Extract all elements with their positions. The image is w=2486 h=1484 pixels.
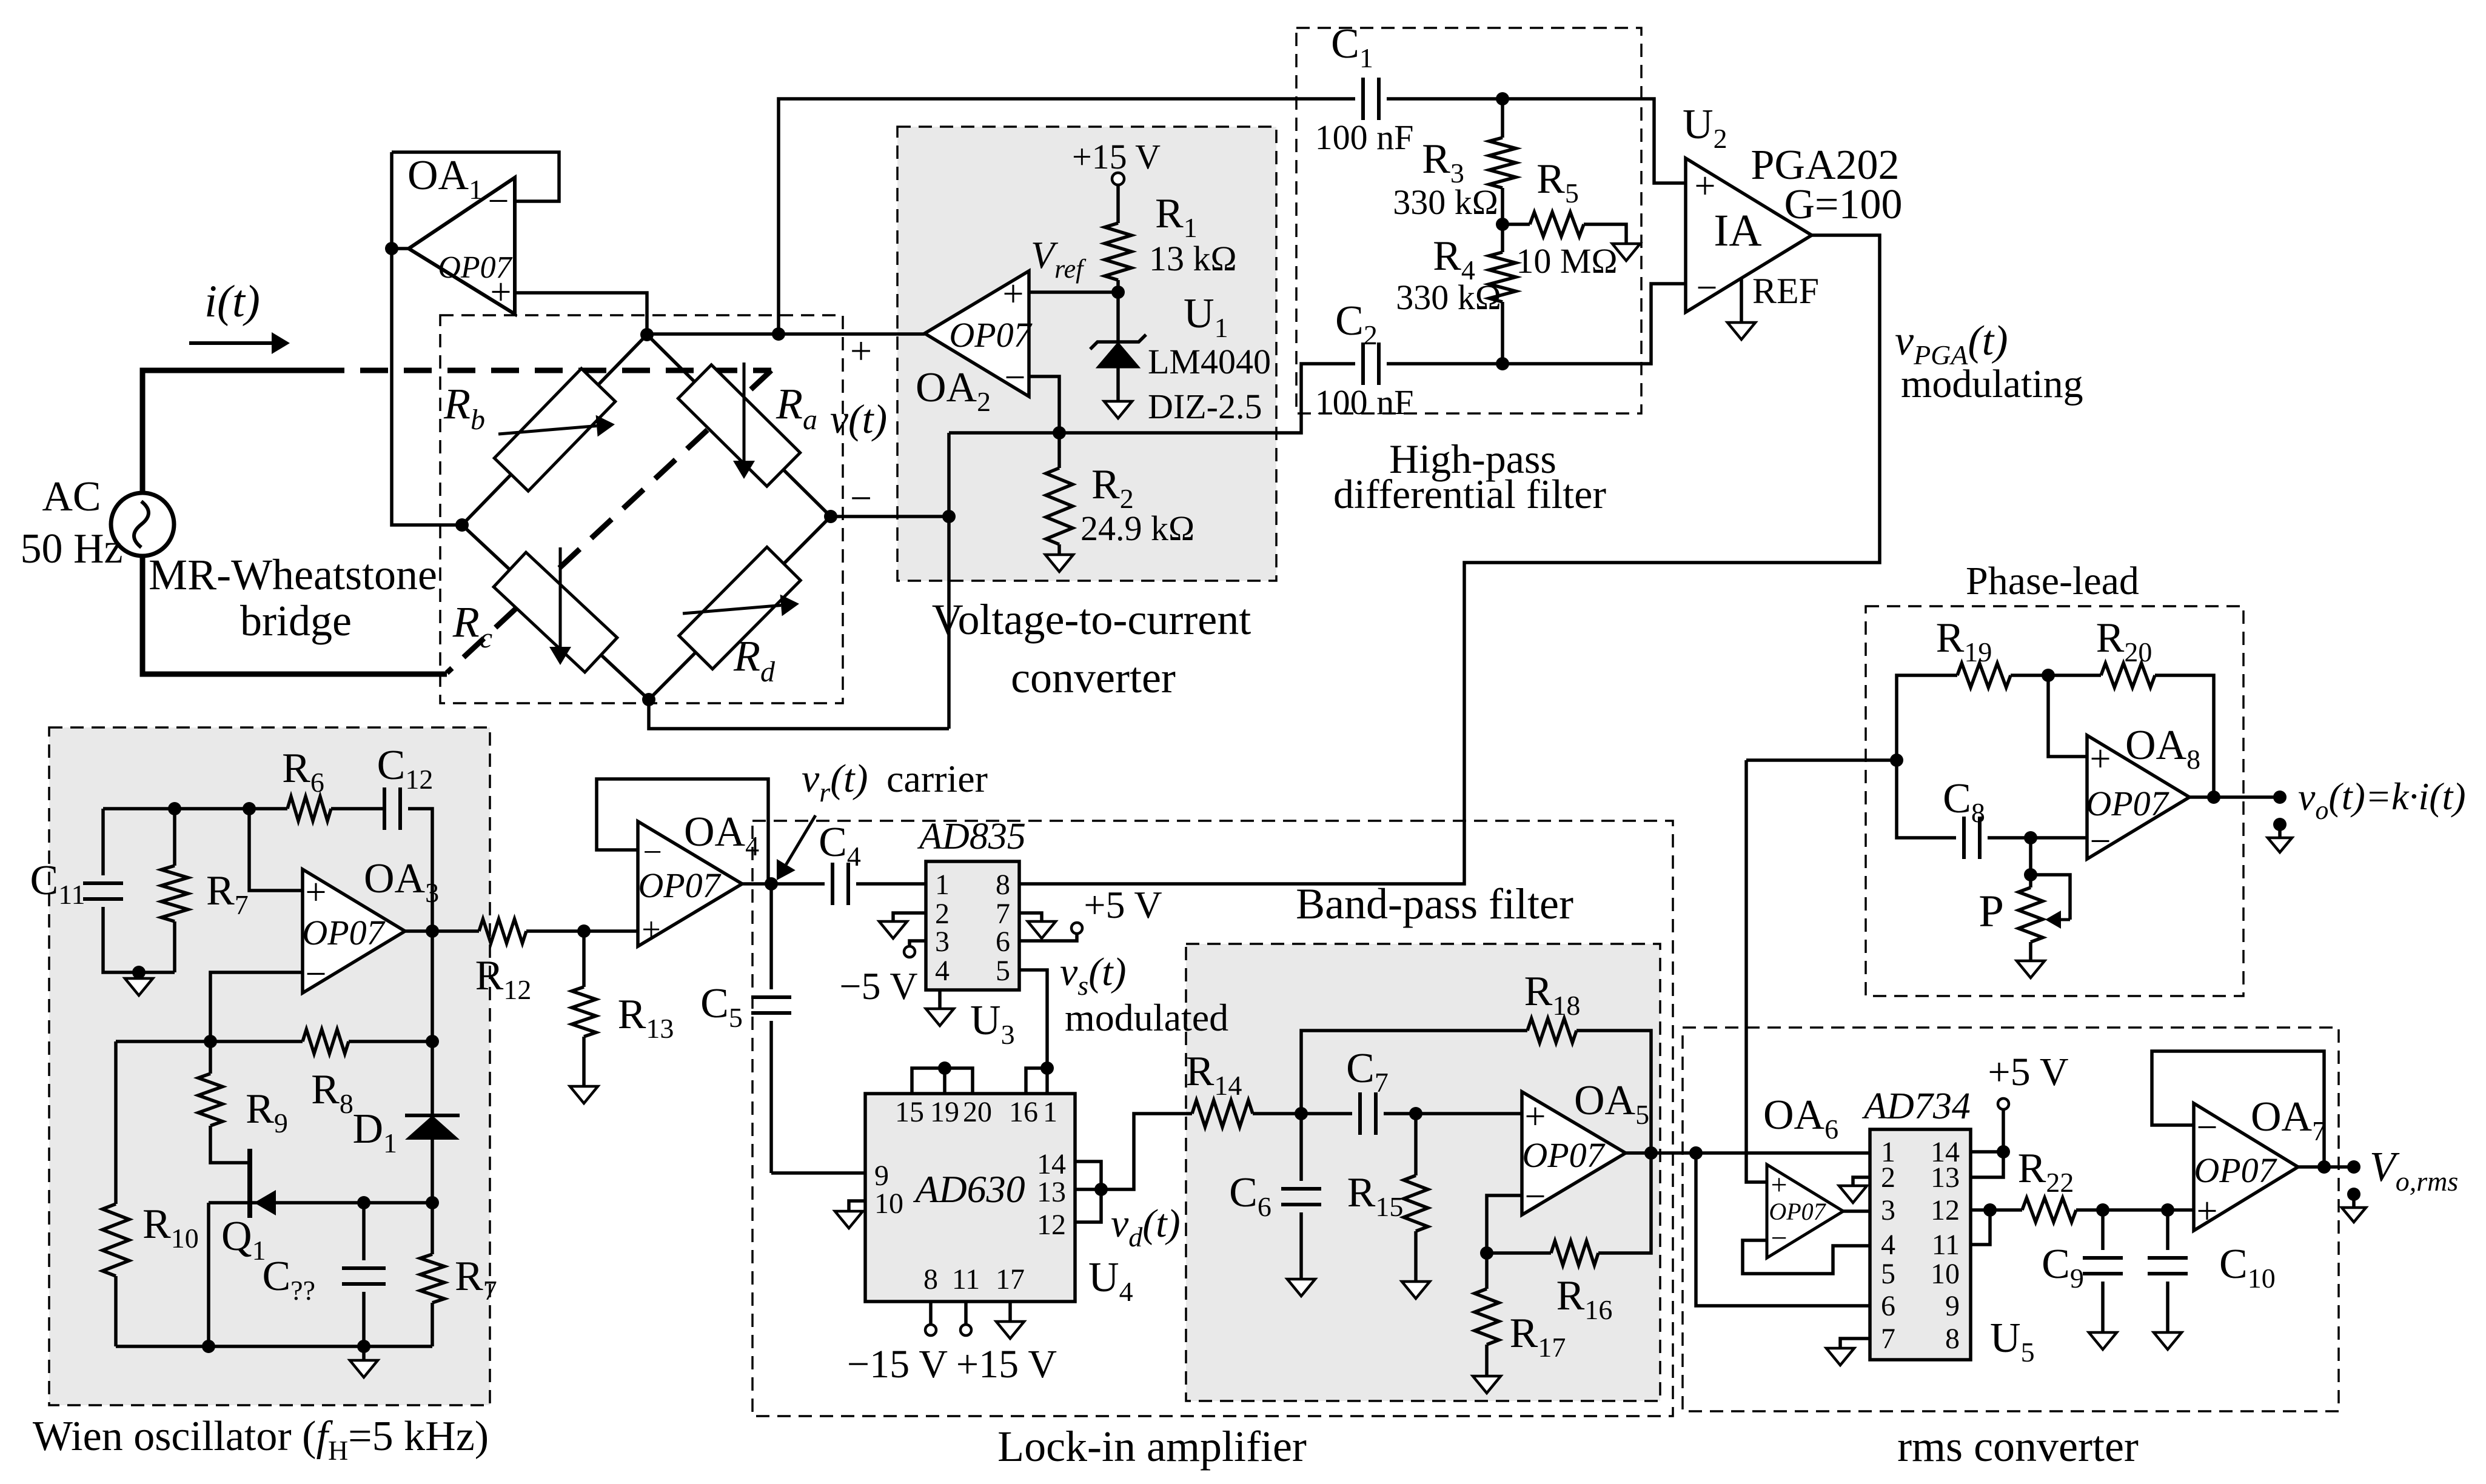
multiplier U5 AD734	[1870, 1129, 1971, 1360]
node OA3 output	[405, 929, 432, 933]
svg-text:100 nF: 100 nF	[1315, 383, 1414, 422]
wire U4 pins 15/19/20 tied	[912, 1068, 973, 1094]
resistor R14	[1192, 1100, 1253, 1127]
node R3/R4/R5	[1496, 218, 1509, 231]
wire OA3 - input to R8 node	[210, 972, 303, 1041]
svg-text:OP07: OP07	[949, 315, 1032, 355]
svg-text:16: 16	[1009, 1096, 1038, 1128]
node phase-lead input	[1746, 758, 1897, 762]
Voltage-to-current converter block (gray dashed box)	[897, 127, 1276, 581]
resistor R22	[1990, 1208, 2022, 1212]
svg-text:13 kΩ: 13 kΩ	[1149, 239, 1237, 278]
resistor R1 13 kOhm	[1116, 185, 1120, 223]
wire OA3 output vertical	[431, 931, 434, 1115]
node bridge left	[455, 518, 469, 532]
wire OA5 - input	[1487, 1195, 1522, 1253]
node OA2 minus / R2	[1053, 426, 1066, 440]
svg-text:11: 11	[1932, 1229, 1960, 1261]
svg-text:Band-pass filter: Band-pass filter	[1296, 880, 1573, 928]
svg-text:1: 1	[1043, 1096, 1057, 1128]
wire Wien bottom rail	[116, 1345, 432, 1348]
balanced modulator U4 AD630	[865, 1094, 1075, 1302]
terminal +15 V	[1112, 173, 1124, 185]
resistor R7 (second)	[431, 1203, 434, 1254]
svg-text:converter: converter	[1011, 653, 1176, 702]
wire C5 to U4 pin9	[771, 1171, 865, 1175]
svg-text:differential filter: differential filter	[1333, 471, 1606, 517]
svg-text:+: +	[1695, 165, 1716, 207]
wire REF to ground	[1740, 278, 1743, 321]
svg-text:3: 3	[935, 926, 950, 958]
svg-text:DIZ-2.5: DIZ-2.5	[1148, 387, 1262, 426]
node bridge top	[640, 328, 654, 341]
svg-text:OP07: OP07	[302, 913, 385, 952]
svg-text:5: 5	[996, 955, 1010, 987]
resistor R18 feedback	[1301, 1031, 1527, 1114]
svg-text:i(t): i(t)	[204, 276, 260, 327]
wire C1 to R3 and U2 +	[1387, 99, 1686, 183]
wire C2 to R4 and U2 -	[1387, 284, 1686, 364]
terminal +5 V at U5 pin14	[1971, 1110, 2003, 1152]
node C10	[2103, 1208, 2168, 1212]
resistor R13	[582, 931, 586, 987]
wire OA1 + input to bridge top node	[515, 293, 647, 335]
terminal +15 V at U4 pin11	[964, 1302, 968, 1324]
wire OA1 output to bridge left node	[392, 152, 462, 525]
node bridge right	[824, 510, 837, 523]
svg-text:+: +	[2197, 1191, 2218, 1232]
svg-text:−: −	[2090, 821, 2111, 862]
svg-text:−: −	[488, 181, 509, 222]
ground U3 pin7	[1019, 913, 1042, 920]
ground Vo,rms reference	[2347, 1188, 2360, 1201]
node Vref	[1111, 286, 1125, 299]
terminal -15 V at U4 pin8	[929, 1302, 933, 1324]
ground U4 pin10	[849, 1201, 865, 1210]
svg-text:−: −	[2197, 1107, 2218, 1148]
MR resistor Ra	[678, 365, 800, 486]
op-amp OA1 (OP07)	[409, 178, 515, 314]
wire U5 pin12 to R22	[1971, 1208, 1990, 1212]
svg-text:Wien oscillator (fH​=5 kHz): Wien oscillator (fH​=5 kHz)	[33, 1413, 489, 1466]
node R14/C7/R18/C6	[1295, 1107, 1308, 1120]
resistor R5 10 MOhm	[1503, 222, 1530, 226]
op-amp OA7 (OP07)	[2194, 1103, 2298, 1231]
wire OA7 feedback	[2298, 1165, 2324, 1169]
wire OA4 feedback	[597, 779, 768, 884]
resistor R20	[2048, 673, 2101, 677]
node R4/C2	[1496, 357, 1509, 370]
wire OA1 feedback loop	[392, 152, 559, 201]
MR-Wheatstone bridge block (dashed box)	[440, 315, 843, 703]
wire R19/R20 node to OA8 +	[2048, 675, 2087, 757]
multiplier U3 AD835	[926, 861, 1019, 990]
wire OA6 - feedback from pin4	[1743, 1240, 1870, 1274]
wire up to C1	[779, 99, 1355, 334]
svg-text:+: +	[306, 872, 327, 913]
wire R12 node to OA4 +	[584, 929, 638, 933]
svg-text:50 Hz: 50 Hz	[20, 526, 122, 572]
svg-text:+: +	[1525, 1096, 1546, 1137]
capacitor C2 100 nF	[1363, 343, 1379, 385]
svg-text:19: 19	[930, 1096, 959, 1128]
capacitor C8	[1897, 760, 1956, 838]
capacitor C5	[769, 884, 773, 989]
svg-text:12: 12	[1931, 1194, 1960, 1226]
ground U3 pin4	[938, 990, 942, 1008]
node D1/R7b/C	[426, 1196, 439, 1209]
node R8 left	[204, 1035, 217, 1048]
svg-text:−: −	[1005, 357, 1026, 398]
svg-text:OP07: OP07	[638, 866, 721, 905]
node v- junction	[942, 510, 956, 523]
svg-text:+: +	[1003, 273, 1024, 315]
wire OA2 + input to Vref	[1029, 290, 1118, 294]
diode D1	[405, 1114, 460, 1117]
resistor R3 330 kOhm	[1501, 99, 1504, 138]
terminal -5 V at U3 pin3	[910, 941, 926, 946]
node R8 right	[426, 1035, 439, 1048]
op-amp OA6 (OP07)	[1767, 1165, 1843, 1258]
svg-text:8: 8	[996, 869, 1010, 901]
svg-text:13: 13	[1931, 1161, 1960, 1194]
Lock-in amplifier block (dashed box)	[752, 821, 1673, 1416]
node vr carrier	[742, 882, 771, 886]
svg-text:modulated: modulated	[1065, 996, 1228, 1039]
svg-text:6: 6	[1881, 1290, 1895, 1322]
svg-text:bridge: bridge	[240, 597, 352, 645]
resistor R6	[287, 797, 331, 821]
Phase-lead block (dashed box)	[1866, 606, 2243, 996]
capacitor C12	[384, 787, 400, 830]
svg-text:8: 8	[1945, 1323, 1960, 1355]
resistor R9	[209, 1041, 212, 1074]
svg-text:AC: AC	[42, 473, 101, 520]
potentiometer P	[2029, 838, 2032, 887]
rms converter block (dashed box)	[1683, 1028, 2339, 1411]
svg-text:10: 10	[1931, 1258, 1960, 1290]
capacitor C6	[1299, 1114, 1303, 1181]
capacitor C11	[101, 809, 105, 875]
node OA1 output	[385, 242, 398, 255]
High-pass differential filter block (dashed box)	[1296, 28, 1641, 413]
svg-text:G=100: G=100	[1784, 181, 1902, 228]
wire AC source bottom return (thick)	[142, 556, 447, 674]
svg-text:15: 15	[895, 1096, 924, 1128]
svg-text:13: 13	[1037, 1176, 1066, 1208]
wire bridge bottom to v- node	[649, 700, 949, 729]
resistor R15	[1414, 1114, 1418, 1175]
wire OA3 + input	[249, 809, 303, 891]
svg-text:1: 1	[935, 869, 950, 901]
svg-text:2: 2	[1881, 1161, 1895, 1194]
svg-text:−: −	[1771, 1222, 1787, 1254]
svg-text:Lock-in amplifier: Lock-in amplifier	[997, 1422, 1307, 1471]
svg-text:12: 12	[1037, 1209, 1066, 1241]
svg-text:modulating: modulating	[1901, 362, 2083, 406]
ground U4 pin17	[1008, 1302, 1012, 1320]
resistor R7	[173, 809, 176, 866]
svg-text:v(t): v(t)	[830, 396, 887, 442]
capacitor C7	[1301, 1112, 1352, 1115]
capacitor C4	[771, 882, 825, 886]
svg-text:vs​(t): vs​(t)	[1060, 950, 1127, 1001]
svg-text:8: 8	[923, 1263, 938, 1295]
wire excitation dashed (top run)	[317, 368, 771, 373]
wire U5 pin11 tied to pin12	[1971, 1210, 1990, 1245]
node OA8 output	[2189, 795, 2280, 799]
ground Wien bottom	[362, 1346, 366, 1359]
node R22/C9	[2096, 1203, 2109, 1217]
svg-text:P: P	[1978, 886, 2004, 937]
svg-text:10: 10	[874, 1188, 903, 1220]
svg-text:vd​(t): vd​(t)	[1111, 1202, 1181, 1252]
wire v- to OA2 minus and C2	[949, 364, 1355, 433]
svg-text:+: +	[642, 911, 661, 949]
svg-text:10 MΩ: 10 MΩ	[1516, 241, 1617, 281]
wire bridge right node to v- node	[831, 515, 949, 518]
wire excitation dashed (diagonal through bridge)	[447, 370, 771, 673]
resistor R8	[210, 1040, 303, 1043]
wire pin6 to OA5 output	[1696, 1153, 1870, 1306]
svg-text:9: 9	[1945, 1290, 1960, 1322]
svg-text:5: 5	[1881, 1258, 1895, 1290]
wire Q1 source down to bottom rail	[207, 1203, 210, 1346]
svg-text:6: 6	[996, 926, 1010, 958]
MR resistor Rd	[679, 547, 801, 669]
svg-text:Voltage-to-current: Voltage-to-current	[932, 595, 1251, 644]
svg-text:carrier: carrier	[886, 757, 988, 800]
capacitor C10	[2166, 1210, 2169, 1250]
node R16/R17	[1480, 1246, 1493, 1260]
svg-text:OP07: OP07	[2194, 1151, 2277, 1190]
svg-text:MR-Wheatstone: MR-Wheatstone	[149, 550, 437, 599]
wire U4 pins 16/1 tied to vs(t)	[1026, 1068, 1047, 1094]
resistor R4 330 kOhm	[1501, 224, 1504, 252]
node bridge bottom	[642, 693, 655, 706]
wire U5 pin13 tied to +5V node	[1971, 1152, 2003, 1177]
resistor R19	[1897, 675, 1957, 760]
svg-text:3: 3	[1881, 1194, 1895, 1226]
wire to OA7 +	[2168, 1208, 2194, 1212]
zener diode U1 LM4040 DIZ-2.5	[1116, 292, 1120, 343]
node C11/R7 ground	[132, 966, 146, 979]
node C1/R3	[1496, 92, 1509, 105]
wire bridge top node to OA2 + input	[647, 332, 925, 336]
svg-text:7: 7	[1881, 1323, 1895, 1355]
wire v- vertical run	[947, 433, 951, 729]
svg-text:+15 V: +15 V	[956, 1342, 1057, 1386]
node C8/P	[2024, 831, 2037, 844]
MR resistor Rb	[494, 369, 615, 491]
instrumentation amplifier U2 PGA202	[1686, 158, 1812, 312]
node R12/R13	[577, 924, 591, 938]
capacitor C??	[362, 1203, 366, 1260]
resistor R17	[1485, 1253, 1489, 1289]
wire U4 pins 14/13/12 tied vd(t)	[1075, 1161, 1101, 1222]
svg-text:Phase-lead: Phase-lead	[1966, 559, 2139, 603]
op-amp OA5 (OP07)	[1522, 1092, 1626, 1215]
svg-text:OP07: OP07	[1769, 1198, 1826, 1225]
node R19/R20	[2042, 669, 2055, 682]
svg-text:+: +	[2090, 738, 2111, 780]
wire bridge diamond sides	[462, 335, 647, 525]
wire U3 pin5 vs(t) to U4 pin1	[1019, 970, 1047, 1068]
op-amp OA3 (OP07)	[303, 869, 405, 993]
wire Wien top node	[103, 807, 287, 811]
node Vo,rms output	[2324, 1165, 2354, 1169]
svg-text:+5 V: +5 V	[1084, 883, 1162, 926]
svg-text:330 kΩ: 330 kΩ	[1396, 278, 1501, 317]
svg-text:OP07: OP07	[1522, 1135, 1605, 1175]
resistor R12	[432, 929, 479, 933]
terminal +5 V at U3 pin6	[1019, 934, 1077, 941]
svg-text:OP07: OP07	[2086, 784, 2169, 823]
svg-text:−: −	[850, 476, 872, 520]
svg-text:−: −	[1697, 267, 1718, 309]
op-amp OA8 (OP07)	[2087, 735, 2189, 859]
svg-text:−15 V: −15 V	[847, 1342, 948, 1386]
svg-text:IA: IA	[1714, 206, 1761, 256]
svg-text:REF: REF	[1752, 271, 1819, 311]
svg-text:24.9 kΩ: 24.9 kΩ	[1081, 509, 1194, 548]
ground U5 pin7	[1840, 1339, 1870, 1347]
svg-text:11: 11	[952, 1263, 980, 1295]
node C7/R15	[1409, 1107, 1422, 1120]
Band-pass filter block (gray dashed box)	[1186, 944, 1660, 1401]
wire to phase-lead and OA6 +	[1746, 760, 1767, 1182]
svg-text:+: +	[491, 272, 512, 313]
transistor Q1	[247, 1149, 252, 1218]
svg-text:+: +	[1771, 1169, 1787, 1201]
resistor R16	[1487, 1251, 1551, 1255]
ground U5 pin2	[1853, 1177, 1870, 1185]
svg-text:vr​(t): vr​(t)	[802, 757, 868, 807]
wire OA5 output to AD734 pin1	[1626, 1151, 1870, 1155]
svg-text:LM4040: LM4040	[1148, 342, 1271, 381]
resistor R10	[116, 1040, 210, 1043]
svg-text:AD835: AD835	[917, 816, 1026, 857]
wire OA6 output to pin3	[1843, 1209, 1870, 1213]
wire OA2 - input	[1029, 376, 1059, 433]
wire AC source to bridge (thick, top)	[142, 370, 317, 493]
AC source V1 50 Hz	[111, 493, 174, 556]
capacitor C1 100 nF	[1363, 78, 1379, 120]
wire U2 output vPGA to AD835 pin8	[1019, 235, 1880, 884]
node C1 takeoff	[772, 327, 785, 341]
ground vo(t) reference	[2273, 818, 2287, 831]
resistor R2 24.9 kOhm	[1057, 433, 1061, 468]
svg-text:17: 17	[996, 1263, 1025, 1295]
op-amp OA4 (OP07)	[638, 821, 742, 946]
ground U3 pin2	[893, 913, 926, 920]
svg-text:rms converter: rms converter	[1897, 1422, 2139, 1471]
capacitor C9	[2101, 1210, 2105, 1250]
node OA5 output	[1644, 1146, 1658, 1160]
svg-text:4: 4	[1881, 1229, 1895, 1261]
Wien oscillator block (gray dashed box)	[49, 727, 490, 1405]
svg-text:AD630: AD630	[913, 1168, 1025, 1211]
svg-text:AD734: AD734	[1861, 1086, 1971, 1127]
op-amp OA2 (OP07)	[925, 271, 1029, 396]
svg-text:100 nF: 100 nF	[1315, 118, 1414, 157]
svg-text:−: −	[306, 954, 327, 995]
svg-text:4: 4	[935, 955, 950, 987]
svg-text:+5 V: +5 V	[1988, 1050, 2068, 1094]
svg-text:20: 20	[963, 1096, 992, 1128]
svg-text:−: −	[1525, 1176, 1546, 1217]
svg-text:330 kΩ: 330 kΩ	[1393, 182, 1498, 222]
svg-text:−5 V: −5 V	[839, 964, 917, 1008]
svg-text:+15 V: +15 V	[1072, 137, 1161, 176]
MR resistor Rc	[494, 552, 617, 672]
